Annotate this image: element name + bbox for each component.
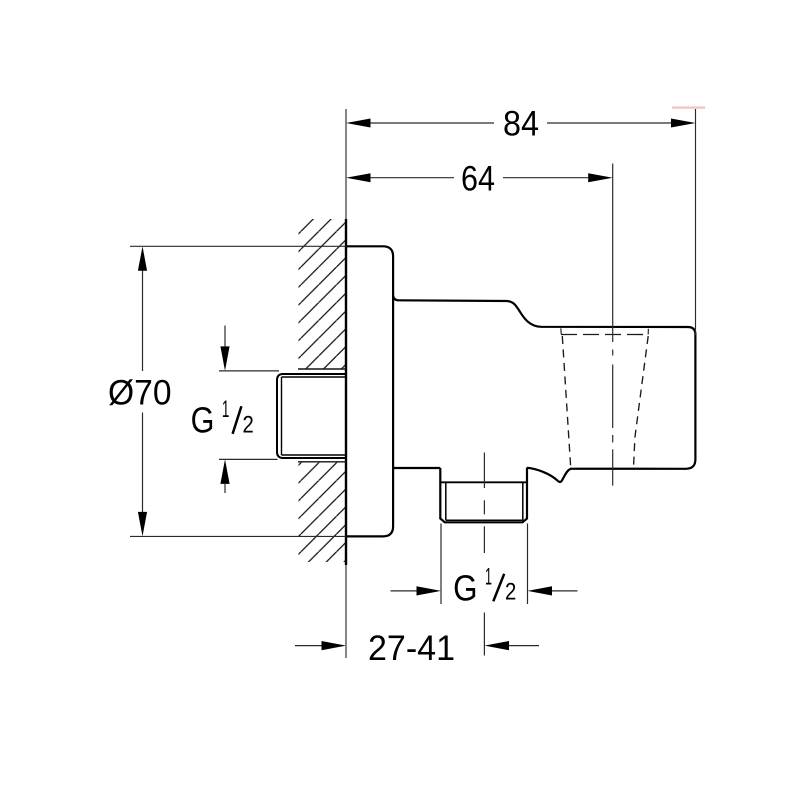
- inlet pipe thread line top: [282, 376, 346, 378]
- dim 64 line: [370, 177, 454, 179]
- svg-text:2: 2: [505, 579, 516, 606]
- outlet nipple thread line bottom: [446, 519, 523, 521]
- escutcheon flange outline: [346, 246, 393, 536]
- svg-text:27-41: 27-41: [368, 629, 455, 668]
- dim G12 left arrow down: [224, 326, 226, 348]
- outlet nipple outer: [440, 468, 527, 523]
- holder cone hidden top edge: [561, 334, 649, 336]
- svg-text:Ø70: Ø70: [108, 374, 172, 413]
- dim D70 line: [142, 270, 144, 371]
- holder cone centerline: [612, 164, 614, 343]
- dim 84 extension line right: [695, 109, 697, 335]
- holder cone hidden right side: [634, 336, 649, 467]
- svg-text:G: G: [453, 568, 477, 609]
- wall bore line top: [298, 368, 346, 370]
- svg-text:1: 1: [485, 564, 492, 591]
- wall extension line above (for 84/64 dims): [345, 109, 347, 219]
- dim D70 arrow down: [138, 512, 147, 537]
- dim 27-41 arrow left: [295, 645, 323, 647]
- wall bore line bottom: [298, 461, 346, 463]
- outlet centerline: [483, 453, 485, 489]
- dim 64 arrow right: [588, 173, 613, 182]
- inlet pipe outer: [277, 374, 346, 458]
- inlet pipe thread line bottom: [282, 454, 346, 456]
- wall hatching upper: [299, 219, 346, 369]
- dim G12 bottom arrow right: [551, 590, 578, 592]
- body bottom edge (flange to outlet): [394, 467, 440, 469]
- dim G12 left ext top: [219, 370, 279, 372]
- dim G12 bottom arrow left: [391, 590, 419, 592]
- wall extension line below (for 27-41 dim): [345, 565, 347, 658]
- dim D70 extension bottom: [130, 535, 346, 537]
- inlet pipe thread line vertical: [281, 377, 283, 455]
- svg-text:64: 64: [461, 160, 495, 199]
- dim 84 arrow left: [346, 119, 371, 128]
- wall face edge: [345, 219, 347, 565]
- svg-text:84: 84: [503, 105, 539, 144]
- dim G12 bottom ext right: [527, 524, 529, 605]
- svg-text:2: 2: [243, 412, 254, 439]
- svg-text:G: G: [191, 400, 215, 441]
- dim D70 extension top: [130, 245, 346, 247]
- dim 27-41 arrow right: [508, 645, 540, 647]
- dim D70 arrow up: [138, 246, 147, 270]
- holder cone rim left: [560, 328, 563, 334]
- holder cone rim right: [647, 329, 649, 335]
- dim 84 line: [370, 122, 494, 124]
- body neck and holder outline top: [393, 296, 695, 482]
- dim 84 arrow right: [671, 119, 696, 128]
- dim G12 left ext bottom: [219, 458, 278, 460]
- outlet nipple thread line right: [522, 482, 524, 520]
- outlet nipple shoulder line: [440, 481, 527, 483]
- wall hatching lower: [299, 462, 346, 562]
- dim G12 bottom ext left: [440, 524, 442, 605]
- svg-text:1: 1: [222, 396, 230, 423]
- pink scan artifact: [672, 106, 705, 108]
- holder cone hidden left side: [562, 336, 571, 469]
- outlet nipple thread line left: [445, 482, 447, 520]
- dim 64 arrow left: [346, 173, 371, 182]
- dim G12 left arrow up: [224, 484, 226, 493]
